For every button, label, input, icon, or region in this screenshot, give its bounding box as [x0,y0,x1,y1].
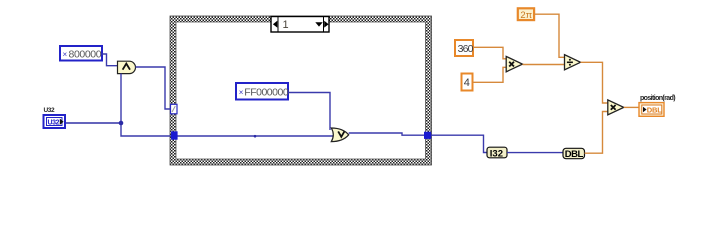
svg-text:position(rad): position(rad) [640,95,675,102]
svg-text:DBL: DBL [647,106,662,115]
To I32 conversion bullet [487,147,507,159]
svg-text:DBL: DBL [565,149,584,160]
DBL indicator terminal [639,103,664,117]
left tunnel (hollow, And output) [171,104,178,114]
wire: And output to left hollow tunnel [136,67,172,109]
right tunnel (solid, Or output) [424,132,431,139]
Divide function [565,55,581,70]
junction dot [119,121,124,126]
svg-text:1: 1 [283,19,289,31]
wire: 360 to Multiply1 top input [473,47,506,59]
wire: x800000 to And top input [102,54,118,66]
wire: 2pi to Divide top input [534,14,565,57]
U32 control terminal [44,115,66,128]
svg-text:4: 4 [464,77,470,89]
hex constant xFF000000 [236,83,289,100]
wire: Divide output to Multiply2 top input [581,62,609,103]
numeric constant 360 [455,40,474,56]
svg-text:2π: 2π [520,10,532,21]
Or function (bitwise OR) [331,128,348,142]
wire: 4 to Multiply1 bottom input [473,67,507,82]
numeric constant 4 [462,74,473,91]
wire: To-I32 to To-DBL bullet [507,152,563,154]
Multiply function 2 [608,100,624,115]
svg-text:U32: U32 [48,119,60,126]
svg-text:360: 360 [458,43,474,55]
case selector label "1" [271,17,329,33]
svg-text:FF000000: FF000000 [244,87,289,99]
wire joint dot [254,135,257,138]
case structure frame [170,16,432,165]
wire: Multiply1 output to Divide bottom input [523,64,565,66]
hex constant x800000 [60,46,102,61]
wire: Multiply2 output to DBL indicator [624,106,639,108]
And function (bitwise AND) [118,61,136,73]
To DBL conversion bullet [563,148,585,160]
wire: To-DBL to Multiply2 bottom input (orange) [585,112,609,154]
svg-text:×: × [63,50,68,59]
svg-text:×: × [239,88,244,97]
svg-text:800000: 800000 [69,49,102,61]
svg-text:U32: U32 [44,107,56,114]
wire: xFF000000 to Or top input [288,93,330,131]
wire: junction down through left tunnel to Or bottom input [121,123,334,136]
left tunnel (solid, U32 wire) [171,131,178,139]
wire: Or output through right tunnel to To-I32 bullet [349,133,487,153]
wire: U32 terminal to junction [66,122,121,124]
Multiply function 1 [506,56,522,71]
svg-text:I32: I32 [490,148,503,159]
wire: junction up to And bottom input [120,74,122,124]
numeric constant 2pi [518,8,534,20]
